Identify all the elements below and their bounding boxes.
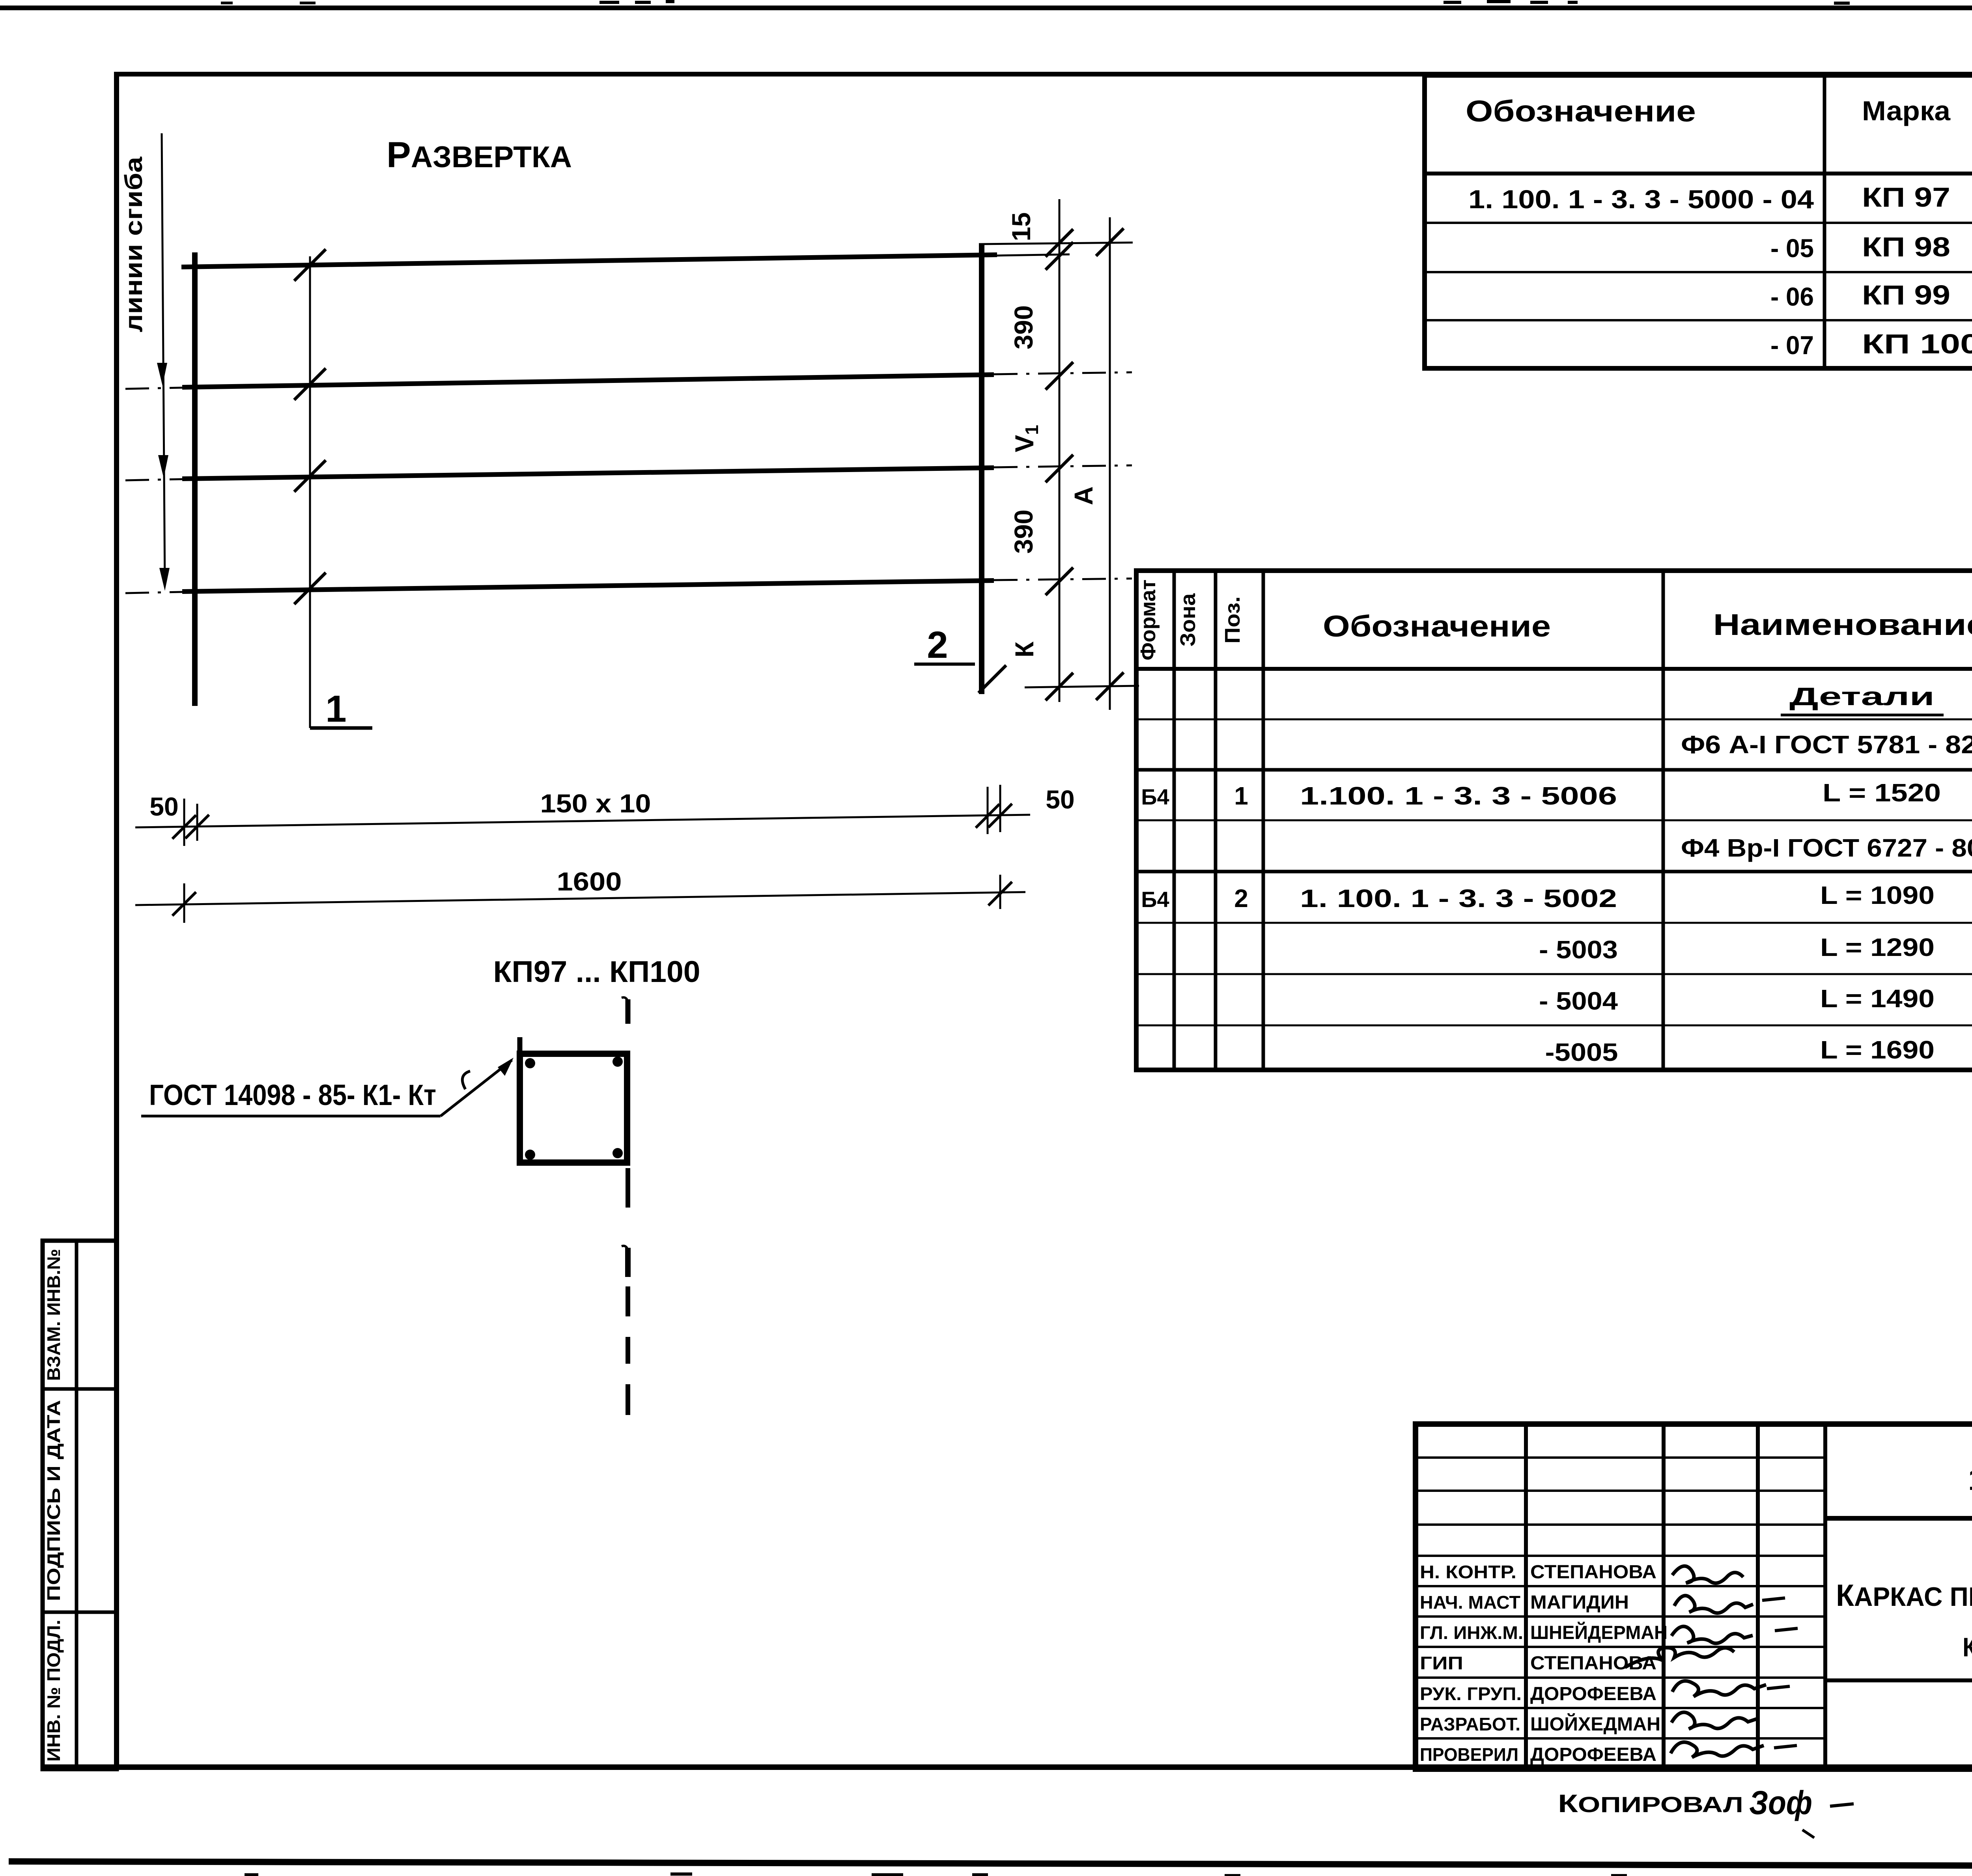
svg-text:КП 100: КП 100 bbox=[1862, 329, 1972, 359]
svg-text:150 x 10: 150 x 10 bbox=[540, 789, 651, 818]
marka table row lines bbox=[1425, 222, 1972, 224]
svg-text:НАЧ. МАСТ: НАЧ. МАСТ bbox=[1420, 1592, 1520, 1613]
svg-text:КП97 ... КП100: КП97 ... КП100 bbox=[493, 955, 700, 989]
svg-text:L = 1290: L = 1290 bbox=[1820, 933, 1935, 961]
svg-text:1: 1 bbox=[1234, 782, 1248, 810]
right dimension chain line (15/390/V1/390/K) bbox=[1059, 199, 1061, 702]
svg-text:ВЗАМ. ИНВ.№: ВЗАМ. ИНВ.№ bbox=[43, 1249, 64, 1381]
svg-text:СТЕПАНОВА: СТЕПАНОВА bbox=[1530, 1653, 1656, 1674]
svg-text:А: А bbox=[1069, 486, 1098, 505]
svg-text:15: 15 bbox=[1007, 212, 1036, 241]
svg-text:Обозначение: Обозначение bbox=[1466, 95, 1696, 128]
section axis dash (top hook) bbox=[626, 999, 631, 1024]
svg-text:КП 98: КП 98 bbox=[1862, 231, 1950, 262]
fold-lines leader line (линии сгиба) bbox=[162, 133, 165, 586]
svg-text:РАЗРАБОТ.: РАЗРАБОТ. bbox=[1420, 1714, 1520, 1734]
svg-text:РАЗВЕРТКА: РАЗВЕРТКА bbox=[387, 135, 572, 175]
svg-text:Зона: Зона bbox=[1176, 593, 1200, 646]
svg-text:1: 1 bbox=[325, 688, 346, 730]
development: fold line H4 bbox=[182, 581, 994, 592]
scan artifact: bottom page edge line bbox=[9, 1858, 1972, 1870]
section axis dashes below square bbox=[626, 1168, 630, 1208]
svg-text:390: 390 bbox=[1009, 510, 1038, 554]
fold line H2 dash-dot extensions bbox=[125, 388, 182, 389]
frame top border bbox=[114, 72, 1972, 77]
svg-text:2: 2 bbox=[927, 624, 948, 666]
svg-text:- 07: - 07 bbox=[1770, 330, 1814, 360]
extension line at H1 right bbox=[997, 254, 1070, 256]
svg-text:- 5004: - 5004 bbox=[1539, 987, 1618, 1015]
svg-text:линии сгиба: линии сгиба bbox=[120, 157, 148, 332]
signatures (handwritten) bbox=[1672, 1566, 1743, 1583]
svg-text:ПОДПИСЬ И ДАТА: ПОДПИСЬ И ДАТА bbox=[43, 1400, 64, 1601]
svg-text:Марка: Марка bbox=[1862, 95, 1951, 126]
svg-text:L = 1690: L = 1690 bbox=[1820, 1036, 1935, 1064]
svg-text:СТЕПАНОВА: СТЕПАНОВА bbox=[1530, 1562, 1656, 1583]
svg-text:1600: 1600 bbox=[557, 867, 622, 896]
strip dimension line 150x10 bbox=[135, 815, 1030, 827]
svg-text:КОПИРОВАЛ: КОПИРОВАЛ bbox=[1558, 1789, 1743, 1818]
scan artifact: bottom edge dashes bbox=[670, 1872, 692, 1876]
tick marks on section line 1 bbox=[294, 249, 326, 281]
svg-text:КП 97: КП 97 bbox=[1862, 182, 1950, 213]
svg-text:МАГИДИН: МАГИДИН bbox=[1530, 1592, 1629, 1613]
development: left edge bar bbox=[192, 252, 198, 706]
extension line at sheet top edge bbox=[979, 243, 1133, 244]
title block outer border bbox=[1416, 1424, 1972, 1769]
strip dim extension verticals bbox=[183, 799, 185, 846]
svg-text:1. 100 . 1 - 3. 3: 1. 100 . 1 - 3. 3 bbox=[1968, 1462, 1972, 1497]
svg-text:390: 390 bbox=[1009, 305, 1038, 349]
svg-text:-5005: -5005 bbox=[1545, 1038, 1618, 1066]
svg-text:Обозначение: Обозначение bbox=[1323, 610, 1551, 643]
svg-text:L = 1490: L = 1490 bbox=[1820, 984, 1935, 1013]
section line 1 (vertical cut line) bbox=[309, 256, 311, 728]
development: top edge line H1 bbox=[181, 255, 997, 267]
svg-text:50: 50 bbox=[1046, 785, 1074, 814]
svg-text:1. 100. 1 - 3. 3 - 500: 1. 100. 1 - 3. 3 - 5002 bbox=[1300, 884, 1617, 913]
svg-text:L = 1520: L = 1520 bbox=[1823, 778, 1941, 807]
scan artifact: top page edge line bbox=[0, 6, 1972, 10]
svg-text:1.100. 1 - 3. 3 - 5006: 1.100. 1 - 3. 3 - 5006 bbox=[1300, 782, 1617, 810]
strip dim ticks bbox=[172, 815, 196, 839]
svg-text:КП 99: КП 99 bbox=[1862, 280, 1950, 310]
signature trailing dashes bbox=[1762, 1598, 1785, 1600]
extension line at sheet bottom edge bbox=[1025, 686, 1139, 687]
svg-text:- 06: - 06 bbox=[1770, 282, 1814, 311]
development: fold line H2 bbox=[182, 375, 994, 387]
svg-text:Н. КОНТР.: Н. КОНТР. bbox=[1420, 1562, 1516, 1582]
frame left border bbox=[114, 72, 119, 1770]
stirrup left edge stub above corner bbox=[517, 1037, 523, 1055]
svg-text:ГИП: ГИП bbox=[1420, 1653, 1463, 1673]
svg-text:Б4: Б4 bbox=[1141, 887, 1169, 912]
spec table column lines bbox=[1173, 571, 1176, 1070]
svg-text:РУК. ГРУП.: РУК. ГРУП. bbox=[1420, 1684, 1522, 1704]
svg-text:Поз.: Поз. bbox=[1221, 596, 1244, 644]
svg-text:2: 2 bbox=[1234, 884, 1248, 913]
svg-text:ГЛ. ИНЖ.М.: ГЛ. ИНЖ.М. bbox=[1420, 1622, 1523, 1643]
svg-text:- 5003: - 5003 bbox=[1539, 935, 1618, 964]
weld leader line ГОСТ 14098 bbox=[141, 1115, 441, 1118]
svg-text:Б4: Б4 bbox=[1141, 784, 1169, 809]
svg-text:Ф6 А-I ГОСТ 5781 - 82*: Ф6 А-I ГОСТ 5781 - 82* bbox=[1681, 730, 1972, 759]
ticks on dimension chain A bbox=[1096, 228, 1124, 256]
svg-text:ПРОВЕРИЛ: ПРОВЕРИЛ bbox=[1420, 1744, 1518, 1765]
rebar corner dots bbox=[525, 1058, 535, 1068]
svg-text:ГОСТ 14098 - 85- К1- Кт: ГОСТ 14098 - 85- К1- Кт bbox=[149, 1079, 436, 1111]
ticks on dimension chain 1 bbox=[1046, 229, 1073, 257]
scan artifact: top edge dashes bbox=[599, 1, 619, 4]
overall strip dimension line 1600 bbox=[135, 892, 1025, 905]
spec table outer border bbox=[1136, 571, 1972, 1070]
svg-text:ШНЕЙДЕРМАН: ШНЕЙДЕРМАН bbox=[1530, 1622, 1668, 1643]
svg-text:Наименование: Наименование bbox=[1713, 608, 1972, 642]
development: fold line H3 bbox=[182, 468, 994, 479]
marka table column lines bbox=[1823, 75, 1826, 368]
svg-text:Ф4 Вр-I ГОСТ 6727 - 80*: Ф4 Вр-I ГОСТ 6727 - 80* bbox=[1681, 834, 1972, 862]
development: right edge bar bbox=[979, 243, 984, 694]
svg-text:Детали: Детали bbox=[1789, 682, 1935, 711]
fold line H4 dash-dot extensions bbox=[125, 592, 182, 593]
svg-text:ШОЙХЕДМАН: ШОЙХЕДМАН bbox=[1530, 1713, 1660, 1735]
svg-text:L = 1090: L = 1090 bbox=[1820, 881, 1935, 909]
fold line H3 dash-dot extensions bbox=[125, 479, 182, 480]
left stamp strip boxes bbox=[43, 1241, 117, 1769]
weld leader arrowhead bbox=[498, 1058, 514, 1076]
spec table header bottom line bbox=[1136, 667, 1972, 671]
stirrup square outline bbox=[520, 1054, 627, 1163]
svg-text:Зоф: Зоф bbox=[1749, 1784, 1812, 1821]
title block designation separator bbox=[1825, 1516, 1972, 1521]
frame bottom border (stamp bottom) bbox=[43, 1764, 1972, 1770]
svg-text:ДОРОФЕЕВА: ДОРОФЕЕВА bbox=[1530, 1684, 1656, 1704]
svg-text:К: К bbox=[1010, 641, 1039, 657]
weld leader curl bbox=[462, 1071, 470, 1089]
svg-text:50: 50 bbox=[149, 792, 178, 821]
svg-text:КП97 ... КП100: КП97 ... КП100 bbox=[1963, 1632, 1972, 1662]
svg-text:1. 100. 1 - 3. 3 - 5000 -: 1. 100. 1 - 3. 3 - 5000 - 04 bbox=[1468, 185, 1814, 214]
fold-lines leader arrowheads bbox=[157, 363, 167, 386]
svg-text:ДОРОФЕЕВА: ДОРОФЕЕВА bbox=[1530, 1744, 1656, 1765]
svg-text:ИНВ. № ПОДЛ.: ИНВ. № ПОДЛ. bbox=[43, 1620, 64, 1762]
title block row lines (left part) bbox=[1416, 1456, 1825, 1459]
svg-text:Формат: Формат bbox=[1136, 580, 1160, 661]
svg-text:КАРКАС ПРОСТРАНСТВЕННЫЙ: КАРКАС ПРОСТРАНСТВЕННЫЙ bbox=[1836, 1578, 1972, 1613]
svg-text:- 05: - 05 bbox=[1770, 233, 1814, 263]
spec table row lines bbox=[1136, 719, 1972, 721]
marka table header separator bbox=[1425, 172, 1972, 175]
title block column lines (left part) bbox=[1524, 1424, 1528, 1769]
marka table outer border bbox=[1425, 75, 1972, 368]
overall dimension chain line (A) bbox=[1109, 217, 1111, 710]
